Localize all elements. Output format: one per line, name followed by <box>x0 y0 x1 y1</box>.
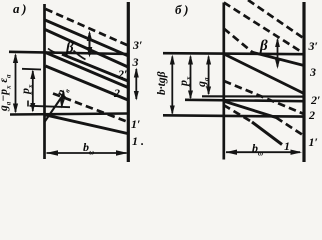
wire extension H2b <box>185 100 304 101</box>
dimension p_bn double arrow fig a <box>62 92 64 106</box>
dimension right of V2a fig a <box>135 69 137 99</box>
contact line d2a dashed fig b <box>224 81 304 114</box>
wire right face line V2a <box>127 2 130 162</box>
wire extension Hmid2 <box>30 106 71 107</box>
contact line a dashed fig b <box>224 3 304 54</box>
contact line b dashed part fig b <box>224 29 253 53</box>
wire extension H2a <box>202 95 304 97</box>
node 1 fig a <box>132 134 144 149</box>
contact line 1x <box>46 66 129 100</box>
label b tg beta fig b <box>156 72 168 95</box>
dimension arrow beta zone fig a <box>89 33 91 55</box>
label b_w fig b <box>252 141 263 157</box>
dimension b_w fig a <box>47 152 127 154</box>
node 1 fig b <box>284 139 290 154</box>
dimension p_x fig a <box>32 71 34 111</box>
wire extension Hmid <box>22 68 41 71</box>
contact line 2 <box>62 54 128 81</box>
label p_x fig b <box>176 77 192 87</box>
node 2 fig a <box>114 86 120 101</box>
contact line 1' <box>46 53 129 88</box>
label p_bn fig a <box>53 84 72 100</box>
label beta fig a <box>66 40 74 57</box>
wire oblique segment fig a <box>45 95 64 122</box>
node 3 fig a <box>133 55 139 70</box>
contact line 1 solid part fig b <box>252 122 282 145</box>
wire right face line V2b <box>302 2 305 162</box>
label b_w fig a <box>83 140 94 156</box>
node 2' fig b <box>311 93 320 108</box>
dimension arrow beta zone fig b <box>277 40 279 67</box>
dimension b tg beta fig b <box>171 57 173 114</box>
wire top boundary H1 <box>9 52 128 54</box>
label b) <box>175 2 188 18</box>
node 2 fig b <box>309 108 315 123</box>
contact line s1 fig b <box>224 54 304 94</box>
wire extension tick fig a <box>27 101 29 107</box>
contact line 2-solid fig b <box>225 102 276 118</box>
dimension b_w fig b <box>226 151 300 153</box>
contact line dashed lower <box>53 94 128 123</box>
wire top boundary H1b <box>163 53 304 54</box>
contact line 1 <box>45 115 128 134</box>
contact line 3 <box>45 20 128 56</box>
label g_a formula fig a <box>0 74 12 111</box>
arc at H1 fig a <box>48 49 58 53</box>
contact line 3' dashed <box>46 9 129 46</box>
wire bottom boundary H2 <box>10 114 128 115</box>
contact line 1'-dashed tail fig b <box>276 118 304 136</box>
label beta fig b <box>260 38 268 55</box>
wire left face line V1b <box>222 3 225 160</box>
node 3 fig b <box>310 65 316 80</box>
contact line 2' <box>45 30 128 68</box>
label g_a fig b <box>194 78 210 88</box>
contact line 1 dashed part fig b <box>224 105 253 122</box>
dimension p_x fig b <box>190 57 192 99</box>
node 1' fig a <box>131 117 140 132</box>
label a) <box>13 1 26 17</box>
node 2' fig a <box>118 67 127 82</box>
dimension g_a outer fig a <box>15 55 17 112</box>
node 3' fig a <box>133 38 142 53</box>
node 1' fig b <box>309 135 318 150</box>
wire left face line V1a <box>43 4 46 159</box>
arc beta fig a <box>74 51 86 60</box>
contact line c dashed fig b <box>248 0 304 39</box>
label p_x fig a <box>18 85 34 95</box>
wire bottom boundary H3b <box>163 115 304 116</box>
contact line b solid part fig b <box>253 52 305 65</box>
dimension g_a fig b <box>208 57 210 95</box>
node 3' fig b <box>309 39 318 54</box>
